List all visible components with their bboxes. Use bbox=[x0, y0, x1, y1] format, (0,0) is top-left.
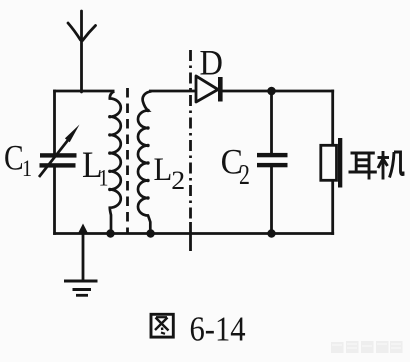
wire diode to top-right corner bbox=[221, 90, 334, 93]
junction dot diode node bbox=[267, 87, 276, 96]
inductor L2 bbox=[138, 91, 152, 233]
wire right edge upper bbox=[331, 90, 334, 147]
svg-text:L: L bbox=[154, 151, 173, 187]
antenna bbox=[68, 11, 96, 92]
wire left edge upper bbox=[53, 90, 56, 155]
wire bottom rail bbox=[53, 232, 334, 235]
svg-text:1: 1 bbox=[22, 156, 32, 182]
stage boundary dash-dot line bbox=[189, 50, 192, 219]
variable capacitor C1 bbox=[39, 125, 80, 178]
wire L2 to diode bbox=[149, 90, 197, 93]
ground bbox=[64, 224, 98, 296]
transformer core dashed line bbox=[126, 88, 129, 234]
svg-text:2: 2 bbox=[171, 166, 185, 195]
svg-text:D: D bbox=[200, 43, 223, 83]
svg-text:1: 1 bbox=[99, 165, 109, 191]
svg-text:6-14: 6-14 bbox=[190, 310, 246, 348]
wire top-left (tank top) bbox=[53, 90, 114, 93]
watermark bbox=[331, 341, 403, 353]
label 耳机 (earphone) drawn strokes: 机 bbox=[378, 151, 404, 180]
junction dot L2-rail bbox=[146, 229, 154, 237]
svg-text:C: C bbox=[4, 139, 24, 178]
wire left edge lower bbox=[53, 167, 56, 235]
caption 图 (figure) drawn strokes bbox=[151, 314, 173, 337]
junction dot C2-rail bbox=[267, 229, 275, 237]
earphone bbox=[321, 138, 343, 188]
junction dot L1-rail bbox=[106, 229, 114, 237]
inductor L1 bbox=[108, 91, 121, 233]
capacitor C2 bbox=[257, 91, 288, 234]
diode D bbox=[196, 76, 223, 102]
svg-text:2: 2 bbox=[239, 161, 250, 191]
label 耳机 (earphone) drawn strokes: 耳 bbox=[349, 153, 377, 180]
wire right edge lower bbox=[331, 181, 334, 235]
